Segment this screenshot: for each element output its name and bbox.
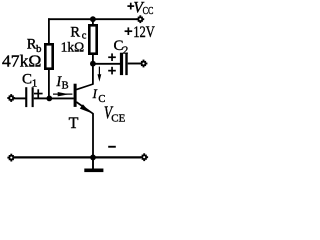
wire rail to Rc: [92, 19, 94, 25]
wire collector vertical: [92, 64, 94, 85]
arrow IB current: [53, 92, 72, 96]
wire top rail: [48, 18, 138, 20]
svg-text:R: R: [70, 25, 80, 41]
terminal Vcc top right: [136, 15, 144, 23]
plus sign of C1: [34, 89, 43, 98]
svg-text:C: C: [22, 72, 32, 88]
capacitor C1: [25, 87, 34, 107]
wire collector node to C2: [93, 63, 120, 65]
wire bottom rail: [14, 156, 141, 158]
svg-text:12V: 12V: [133, 24, 155, 41]
label +VCC: [127, 0, 153, 17]
arrow emitter: [80, 104, 91, 113]
node collector junction on rail: [90, 16, 96, 22]
node emitter ground junction: [90, 155, 96, 161]
svg-text:I: I: [92, 87, 98, 101]
node collector: [90, 61, 96, 67]
wire base node to transistor base: [49, 97, 74, 99]
terminal bottom right: [140, 153, 148, 161]
wire left drop from rail to Rb: [48, 18, 50, 44]
svg-text:1kΩ: 1kΩ: [61, 41, 85, 56]
transistor Q T base bar: [74, 84, 77, 107]
wire Rc bottom to collector node: [92, 54, 94, 64]
node base junction: [46, 96, 52, 102]
wire C1 to base node: [34, 97, 49, 99]
resistor Rc: [89, 25, 96, 53]
plus sign lower of C2: [108, 67, 116, 75]
wire C2 to output terminal: [128, 63, 141, 65]
terminal output: [140, 60, 148, 68]
wire emitter vertical: [92, 113, 94, 157]
svg-text:B: B: [62, 81, 69, 92]
svg-text:47kΩ: 47kΩ: [2, 51, 41, 70]
terminal input: [7, 94, 15, 102]
plus sign upper of C2: [108, 53, 116, 61]
svg-text:T: T: [69, 115, 79, 132]
wire emitter diagonal: [76, 102, 93, 114]
svg-text:1: 1: [32, 78, 38, 90]
arrow IC current: [98, 67, 102, 82]
resistor Rb: [45, 44, 52, 68]
svg-text:CE: CE: [111, 113, 125, 125]
label minus: [108, 146, 116, 148]
label +12V: [125, 24, 156, 41]
wire Rb bottom to base node: [48, 69, 50, 99]
wire input to C1: [14, 97, 26, 99]
capacitor C2: [120, 53, 128, 75]
terminal bottom left: [7, 154, 15, 162]
ground: [84, 157, 103, 172]
svg-text:CC: CC: [143, 6, 154, 17]
wire collector diagonal: [76, 84, 93, 90]
